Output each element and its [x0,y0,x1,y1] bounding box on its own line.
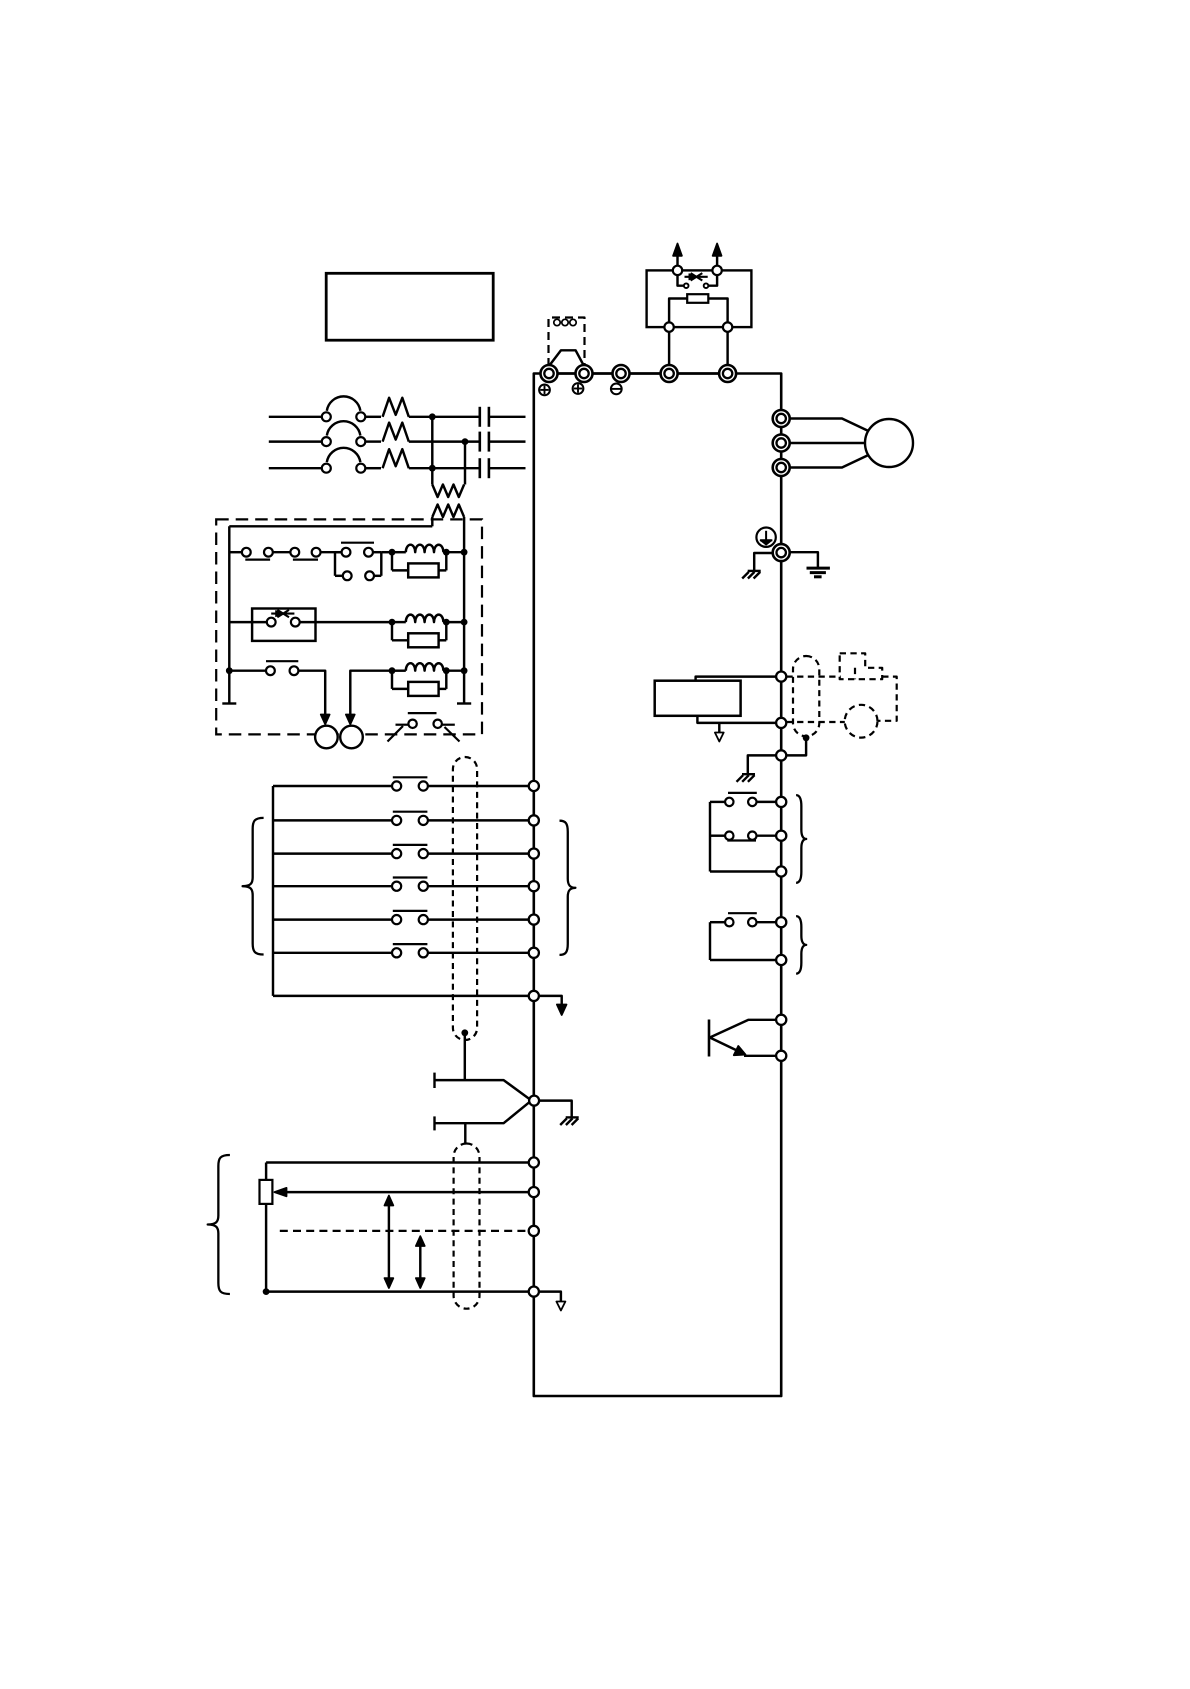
terminal U [773,410,790,427]
wire FG to chassis [539,1101,572,1117]
wire row B to right bus [446,621,464,623]
contactor plate contact phase 3 [480,458,489,478]
terminal FLB [776,831,786,841]
node tap L1 [429,413,436,420]
arrow to lamp 2 [346,715,355,725]
wire resistor left leg [669,299,687,323]
wire input F [273,785,392,787]
wire input RES [273,852,392,854]
circuit breaker MCCB pole 1 [322,396,366,421]
braking unit bottom node right [723,322,732,331]
terminal bar right bus [457,702,471,704]
braking unit terminal right [712,266,721,275]
comm connector block outer [655,681,741,716]
circuit breaker MCCB pole 3 [322,448,366,473]
indicator lamp PL2 [340,726,363,749]
wire W to motor [790,455,870,468]
thermal contact right lead [708,275,717,286]
switch F (NO) [392,777,428,790]
terminal AL (common) [529,1287,539,1297]
contactor control circuit enclosure (dashed) [216,519,482,734]
range arrow V (double) [385,1196,394,1288]
polarity mark plus 2 [573,383,584,394]
resistor R0a (zigzag) [432,485,464,498]
wire S2 to terminal [428,918,528,920]
terminal CC [529,991,539,1001]
wire S1 to terminal [428,885,528,887]
braking unit enclosure [647,270,752,327]
potentiometer leg bottom [265,1204,267,1292]
contact CR aux (NO) [266,661,298,675]
terminal P(+) [576,365,593,382]
switch S1 (NO) [392,878,428,891]
switch RES (NO) [392,845,428,858]
terminal S3 [529,948,539,958]
terminal shield FG [776,750,786,760]
contactor plate contact phase 1 [480,407,489,427]
arrow CC earth [557,1005,567,1016]
wire row A to right bus [446,551,464,553]
shield lead lower [435,1103,529,1131]
wire fuse to contact phase 1 [409,416,480,418]
thermal contact point left [684,283,689,288]
wire input R [273,819,392,821]
wire shield terminal to chassis [748,755,776,773]
node row C right bus [461,667,468,674]
thermal contact point right [704,283,709,288]
wire ground left leg [754,553,773,571]
chassis ground FG [560,1117,579,1125]
wire pot top [266,1161,528,1163]
thermal trip symbol [685,273,708,280]
wire wiper [285,1191,528,1193]
node row B right bus [461,619,468,626]
brace relay 1 [796,795,806,883]
wire row A to contacts [321,551,342,553]
braking unit terminal left [673,266,682,275]
relay coil MC with resistor [389,545,450,578]
wire fuse to contact phase 2 [409,440,480,442]
wire shield drain 2 riser [464,1123,466,1143]
open arrow AL earth [556,1302,565,1311]
potentiometer leg top [265,1163,267,1180]
wiper arrow [275,1188,287,1196]
wire R to terminal [428,819,528,821]
wire top edge [549,372,728,374]
node row C left bus [226,667,233,674]
wire input phase L3 lead [269,467,322,469]
frequency meter (dashed circle) [845,705,878,738]
inverter main enclosure outline [534,374,781,1397]
interlock switch on border [388,713,460,741]
wire contact to terminal phase 2 [489,440,526,442]
jumper P1 to P(+) [549,350,584,366]
comm connector bottom lead [697,716,776,723]
terminal F [529,781,539,791]
wire fuse to contact phase 3 [409,467,480,469]
contactor plate contact phase 2 [480,432,489,452]
brace analog left [208,1155,230,1294]
wire input S3 [273,952,392,954]
relay 2 common wire [710,922,776,960]
wire resistor right leg [708,299,727,323]
calibration resistor (dashed stepped box) [840,653,883,679]
chassis ground comm [737,774,756,782]
wire input S2 [273,918,392,920]
shield oval comm (dashed) [793,656,819,736]
range arrow I (double) [416,1236,425,1288]
wire row A mid [273,551,291,553]
terminal RES [529,849,539,859]
wire R0b left drop [431,517,433,526]
potentiometer body [260,1180,273,1204]
wire V to motor [790,442,866,444]
wire contact to terminal phase 1 [489,416,526,418]
wire input S1 [273,885,392,887]
thermal contact left lead [678,275,684,286]
PE symbol (circle) [756,528,775,547]
brace relay 2 [796,916,806,974]
arrow up right [713,244,722,266]
wire control bus left vertical [228,526,230,703]
terminal OI (current) [529,1226,539,1236]
terminal W [773,459,790,476]
fuse F1 (double peak) [383,398,409,417]
polarity mark minus [611,384,622,395]
comm connector top lead [696,677,777,681]
wire ground right leg [790,552,818,567]
wire input phase L1 lead [269,416,322,418]
dashed wire FM [786,675,840,677]
wire row A from bus [229,551,242,553]
wire row C to right bus [446,669,464,671]
terminal V [773,435,790,452]
wire shield drain 1 riser [464,1033,466,1080]
switch R (NO) [392,812,428,825]
terminal FM [776,672,786,682]
digital input bus vertical [272,786,274,996]
relay coil CR with resistor [389,615,450,648]
shield oval digital (dashed) [453,757,477,1040]
brace digital left [243,818,264,955]
relay 2 contact NO [710,913,776,926]
dashed wire current input [280,1230,528,1232]
dashed wire meter loop [878,677,897,721]
transistor Q1 (open collector output) [709,1020,776,1057]
chassis ground left [742,571,761,579]
terminal FG [529,1096,539,1106]
open arrow down (connector) [715,723,724,741]
wire MCCB to fuse phase 3 [365,467,381,469]
shield oval analog (dashed) [454,1144,480,1309]
dashed wire meter to terminal [786,721,844,723]
motor M [865,419,913,467]
terminal OUT [776,1015,786,1025]
wire AL functional earth [539,1292,561,1302]
wire F to terminal [428,785,528,787]
fuse F2 (double peak) [383,423,409,442]
wire row B from bus [229,621,266,623]
terminal PB [719,365,736,382]
terminal S1 [529,881,539,891]
fuse F3 (double peak) [383,449,409,468]
wire S3 to terminal [428,952,528,954]
terminal S2 [529,915,539,925]
terminal G (ground) [773,544,790,561]
terminal PA [661,365,678,382]
arrow to lamp 1 [321,715,330,725]
connector pair CN1 [242,548,273,560]
arrow up left [673,244,682,266]
brace digital right [560,821,576,955]
switch S3 (NO) [392,944,428,957]
braking unit bottom node left [664,322,673,331]
wire tap B vertical [464,442,466,485]
relay 1 contact NC [710,832,776,841]
relay 1 contact NO [710,793,776,806]
earth ground symbol [807,568,830,577]
wire PB riser [726,332,728,365]
relay 1 common wire [710,802,776,872]
node pot bottom [263,1288,270,1295]
terminal bar left bus [222,702,236,704]
terminal FLA [776,797,786,807]
wire analog common [266,1290,528,1292]
terminal RYA [776,917,786,927]
indicator lamp PL1 [315,726,338,749]
wire row A to coil [381,551,392,553]
terminal FLC [776,866,786,876]
terminal AM [776,718,786,728]
shield lead upper [435,1073,529,1099]
wire control feed left [229,525,432,527]
wire shield drain to terminal [786,738,806,756]
node tap L3 [429,465,436,472]
resistor R0b (zigzag) [432,505,464,518]
wire input phase L2 lead [269,440,322,442]
terminal NO [776,1051,786,1061]
wire MCCB to fuse phase 2 [365,440,381,442]
circuit breaker MCCB pole 2 [322,421,366,446]
wire tap A vertical [431,417,433,485]
relay coil CRX with resistor [389,663,450,696]
terminal RYC [776,955,786,965]
wire row C from bus [229,669,266,671]
wire U to motor [790,419,870,432]
terminal R [529,815,539,825]
note box (blank label) [326,273,493,340]
braking resistor (rect) [687,294,708,303]
contact MC parallel pair [335,543,381,580]
DC reactor DCL (dashed option box) [549,318,585,367]
wire CC functional earth [539,996,562,1005]
terminal P1 [541,365,558,382]
switch S2 (NO) [392,911,428,924]
wire row C to lamp 1 [298,671,325,715]
wire control bus right vertical [463,517,465,704]
terminal O (voltage) [529,1187,539,1197]
shield drain node digital [461,1029,468,1036]
polarity mark plus 1 [539,385,550,396]
wire row C corner to lamp 2 [350,671,392,715]
wire common CC [273,995,528,997]
terminal H (10V) [529,1157,539,1167]
thermal relay block (box) [252,609,315,641]
wire row B to coil [300,621,392,623]
wire MCCB to fuse phase 1 [365,416,381,418]
node row A right bus [461,549,468,556]
node tap L2 [462,438,469,445]
wire PA riser [668,332,670,365]
terminal N(-) [613,365,630,382]
wire RES to terminal [428,852,528,854]
wire contact to terminal phase 3 [489,467,526,469]
shield drain node [803,734,810,741]
connector pair CN2 [290,548,320,560]
